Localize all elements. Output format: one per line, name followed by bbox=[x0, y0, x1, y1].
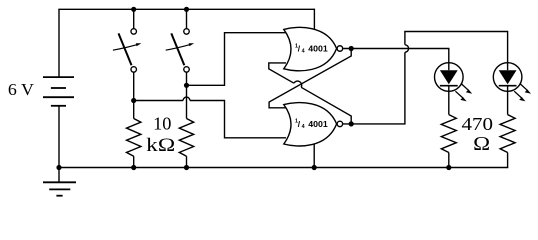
wire node S to gate2 input bbox=[134, 100, 183, 102]
wire gate1 output to LED1 bbox=[343, 49, 449, 63]
resistor R2 10k bbox=[179, 119, 193, 157]
svg-text:4001: 4001 bbox=[308, 120, 328, 129]
svg-text:6 V: 6 V bbox=[8, 80, 35, 99]
svg-text:Ω: Ω bbox=[473, 134, 490, 155]
wire R4 to rail bbox=[507, 153, 509, 168]
battery B1 6V bbox=[43, 77, 74, 106]
resistor R4 470 bbox=[500, 115, 515, 153]
wire top rail bbox=[58, 8, 314, 10]
LED D2 bbox=[493, 63, 531, 102]
switch SW2 bbox=[166, 29, 194, 73]
wire bottom rail bbox=[59, 167, 508, 169]
node R3 ground bbox=[446, 165, 451, 170]
svg-text:4001: 4001 bbox=[308, 45, 328, 54]
wire battery top bbox=[58, 9, 60, 77]
wire LED2 to R4 bbox=[507, 91, 509, 114]
wire node R to gate1 input bbox=[187, 33, 287, 86]
hop over switch2 wire bbox=[183, 97, 190, 100]
wire switch1 top bbox=[133, 9, 135, 28]
switch SW1 bbox=[113, 29, 141, 73]
wire cross-couple A: gate2 upper input from gate1 output bbox=[269, 48, 351, 107]
wire bbox=[190, 101, 286, 138]
node switch2 top bbox=[184, 7, 189, 12]
node switch1 top bbox=[131, 7, 136, 12]
wire ground stub from gate2 bbox=[313, 140, 315, 168]
wire R2 to rail bbox=[186, 156, 188, 167]
node S bbox=[131, 98, 136, 103]
wire gate2 output bbox=[343, 52, 405, 124]
wire to LED2 bbox=[405, 32, 508, 63]
node IC ground bbox=[312, 165, 317, 170]
node R1 ground bbox=[131, 165, 136, 170]
label U1b 1/4 4001 bbox=[295, 119, 328, 130]
resistor R3 470 bbox=[441, 115, 456, 153]
svg-text:470: 470 bbox=[462, 114, 494, 134]
wire power stub to gate1 bbox=[313, 9, 315, 30]
wire cross-couple B: gate1 lower input from gate2 output (with hop) bbox=[269, 63, 294, 83]
svg-text:kΩ: kΩ bbox=[146, 136, 175, 156]
wire LED1 to R3 bbox=[448, 91, 450, 114]
ground bbox=[43, 168, 76, 196]
wire switch2 top bbox=[186, 9, 188, 28]
label U1a 1/4 4001 bbox=[295, 43, 328, 54]
svg-text:4: 4 bbox=[302, 124, 305, 130]
hop over gate1 output wire bbox=[405, 45, 409, 52]
node Q bbox=[349, 46, 354, 51]
wire battery bottom bbox=[58, 106, 60, 168]
wire bbox=[301, 87, 351, 124]
wire R3 to rail bbox=[448, 153, 450, 168]
wire switch1 bottom bbox=[133, 72, 135, 118]
hop over cross wire bbox=[294, 81, 302, 87]
node R bbox=[184, 83, 189, 88]
op-amp U1b NOR gate bbox=[284, 103, 343, 146]
node R2 ground bbox=[184, 165, 189, 170]
wire R1 to rail bbox=[133, 156, 135, 167]
resistor R1 10k bbox=[127, 119, 141, 157]
node battery ground bbox=[56, 165, 61, 170]
svg-text:10: 10 bbox=[153, 114, 171, 134]
wire switch2 bottom bbox=[186, 72, 188, 118]
svg-text:4: 4 bbox=[302, 49, 305, 55]
node Q-bar bbox=[349, 121, 354, 126]
op-amp U1a NOR gate bbox=[284, 27, 343, 70]
LED D1 bbox=[435, 63, 473, 102]
